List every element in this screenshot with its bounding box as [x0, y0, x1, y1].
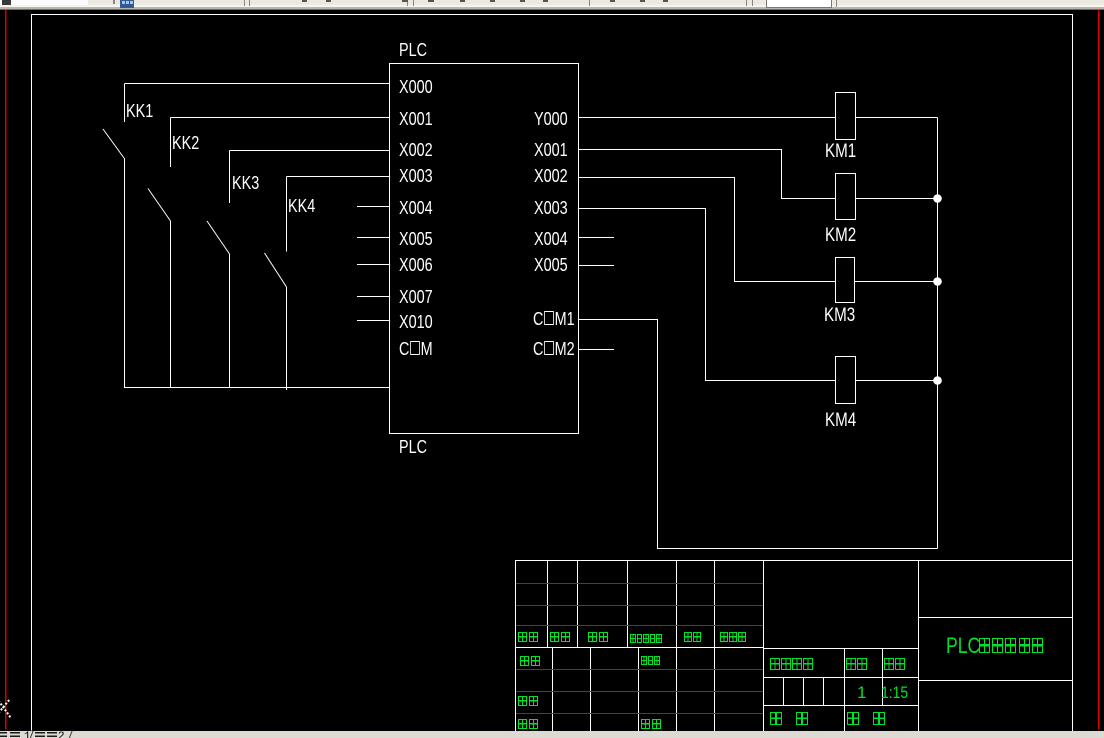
wire KM4 to bus: [856, 380, 938, 382]
switch KK4: [265, 177, 390, 391]
pin label X001: [399, 110, 433, 128]
title text 比例: [884, 658, 906, 676]
pin label X005 out: [534, 256, 568, 274]
title text 工艺: [518, 719, 540, 737]
input stub X007: [357, 296, 390, 298]
junction node KM2 row: [933, 194, 942, 203]
wire COM1 return: [579, 320, 938, 549]
wire X002 out to KM3: [579, 178, 836, 282]
pin label X006: [399, 256, 433, 274]
pin label COM1: [533, 310, 575, 328]
wire KM3 to bus: [855, 281, 938, 283]
title block right column rules: [919, 618, 1073, 681]
pin label X004 out: [534, 230, 568, 248]
label KM2: [825, 226, 856, 245]
label KM1: [825, 142, 856, 161]
label PLC top: [399, 41, 427, 59]
switch KK2: [148, 118, 390, 389]
title text 阶段标记: [770, 658, 814, 676]
wire KM1 to right bus: [856, 117, 938, 119]
pin label X003 out: [534, 199, 568, 217]
PLC box U1: [390, 64, 579, 434]
output stub COM2: [579, 349, 614, 351]
junction node KM3 row: [933, 277, 942, 286]
output stub X005: [579, 265, 614, 267]
wire KM2 to bus: [856, 198, 938, 200]
pin label X005: [399, 230, 433, 248]
title text 设计: [520, 656, 542, 674]
title text 审核: [518, 696, 540, 714]
pin label X010: [399, 313, 433, 331]
pin label X001 out: [534, 141, 568, 159]
UCS icon X axis: [0, 699, 11, 718]
title block lower-left columns: [553, 648, 715, 732]
title block upper-left columns: [548, 561, 715, 648]
drawing title PLC外部接线图: [946, 635, 980, 657]
title text 年月日: [720, 632, 748, 650]
title text 批准: [641, 719, 663, 737]
junction node KM4 row: [933, 376, 942, 385]
pin label X000: [399, 78, 433, 96]
paper edge red line right: [1098, 10, 1100, 730]
title text 签名: [684, 632, 702, 650]
pin label X002 out: [534, 167, 568, 185]
pin label X004: [399, 199, 433, 217]
title block outer grid: [516, 561, 1073, 732]
paper edge red line left: [5, 10, 7, 730]
right bus vertical: [937, 118, 939, 549]
title text 处数: [550, 632, 572, 650]
pin label X002: [399, 141, 433, 159]
common bus wire to PLC COM: [124, 387, 390, 389]
wire X003 out to KM4: [579, 209, 836, 381]
contactor coil KM2: [836, 174, 856, 220]
label KM3: [824, 306, 855, 325]
contactor coil KM3: [836, 258, 855, 303]
pin label Y000: [534, 110, 568, 128]
title text 更改文件号: [630, 634, 663, 652]
label KK2: [172, 134, 199, 152]
title text 标记: [518, 632, 540, 650]
tab bar (model/layout tabs): [0, 731, 1104, 738]
label PLC bottom: [399, 438, 427, 456]
input stub X006: [357, 264, 390, 266]
label KK4: [288, 197, 315, 215]
contactor coil KM1: [836, 93, 856, 140]
input stub X005: [357, 237, 390, 239]
label KK1: [126, 102, 153, 120]
input stub X004: [357, 206, 390, 208]
output stub X004: [579, 237, 614, 239]
wire X001 out to KM2: [579, 150, 836, 199]
label KK3: [232, 174, 259, 192]
title text 共 张: [770, 712, 810, 730]
title text 数量: [846, 658, 868, 676]
input stub X010: [357, 320, 390, 322]
title text 标准化: [641, 656, 661, 674]
contactor coil KM4: [836, 357, 856, 404]
pin label COM: [399, 340, 433, 358]
title block stage-mark section: [764, 649, 919, 732]
pin label X003: [399, 167, 433, 185]
pin label COM2: [533, 340, 575, 358]
wire Y000 to KM1: [579, 117, 836, 119]
pin label X007: [399, 288, 433, 306]
title text 分区: [588, 632, 610, 650]
title text 第 张: [847, 712, 887, 730]
title text scale 1:15: [881, 684, 908, 701]
switch KK3: [207, 151, 390, 389]
switch KK1: [103, 84, 390, 389]
title block lower-left red rules: [516, 670, 763, 714]
title text quantity 1: [857, 684, 866, 701]
label KM4: [825, 411, 856, 430]
toolbar strip (top of CAD window): [0, 0, 1104, 10]
title block upper-left red rules: [516, 584, 763, 626]
